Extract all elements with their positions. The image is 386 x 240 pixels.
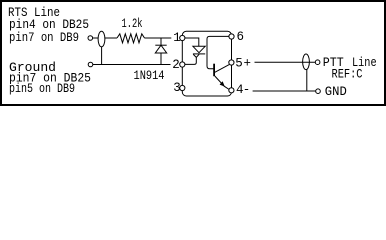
svg-text:-: -: [243, 83, 251, 97]
svg-text:1.2k: 1.2k: [122, 17, 143, 31]
svg-text:1N914: 1N914: [134, 69, 165, 83]
terminal Ground input: [88, 62, 93, 67]
wire resistor to pin1 with diode tap: [145, 37, 172, 39]
net label Ground: [9, 61, 91, 96]
wire ground rail: [93, 64, 171, 66]
wire cable ellipse drop to gnd wire: [306, 69, 308, 91]
wire pin5 to PTT terminal: [255, 61, 316, 63]
LED internal: [185, 46, 205, 64]
wire cable ellipse drop to ground rail: [101, 47, 103, 65]
svg-text:pin5 on DB9: pin5 on DB9: [9, 82, 75, 96]
resistor 1.2k: [117, 34, 145, 43]
svg-text:GND: GND: [325, 85, 347, 99]
svg-text:REF:C: REF:C: [332, 68, 363, 82]
svg-text:pin4 on DB25: pin4 on DB25: [9, 18, 89, 32]
svg-text:2: 2: [172, 58, 180, 72]
LED anode wire pin1 to diode: [185, 38, 199, 46]
cable entry ellipse left: [98, 31, 105, 47]
wire ellipse to resistor: [105, 37, 117, 39]
wire pin4 to GND terminal: [253, 90, 316, 92]
terminal RTS input: [88, 36, 93, 41]
diode 1N914: [155, 38, 166, 65]
phototransistor base wire from pin6: [207, 36, 229, 68]
phototransistor: [214, 64, 229, 90]
svg-text:+: +: [244, 56, 252, 70]
svg-text:pin7 on DB9: pin7 on DB9: [9, 31, 79, 45]
optocoupler body: [182, 31, 231, 96]
terminal GND: [316, 89, 321, 94]
cable entry ellipse right: [303, 54, 310, 70]
svg-text:6: 6: [237, 30, 245, 44]
terminal PTT: [315, 60, 320, 65]
svg-text:5: 5: [235, 57, 243, 71]
wire RTS terminal to cable ellipse: [93, 37, 99, 39]
net label RTS Line: [8, 6, 89, 45]
